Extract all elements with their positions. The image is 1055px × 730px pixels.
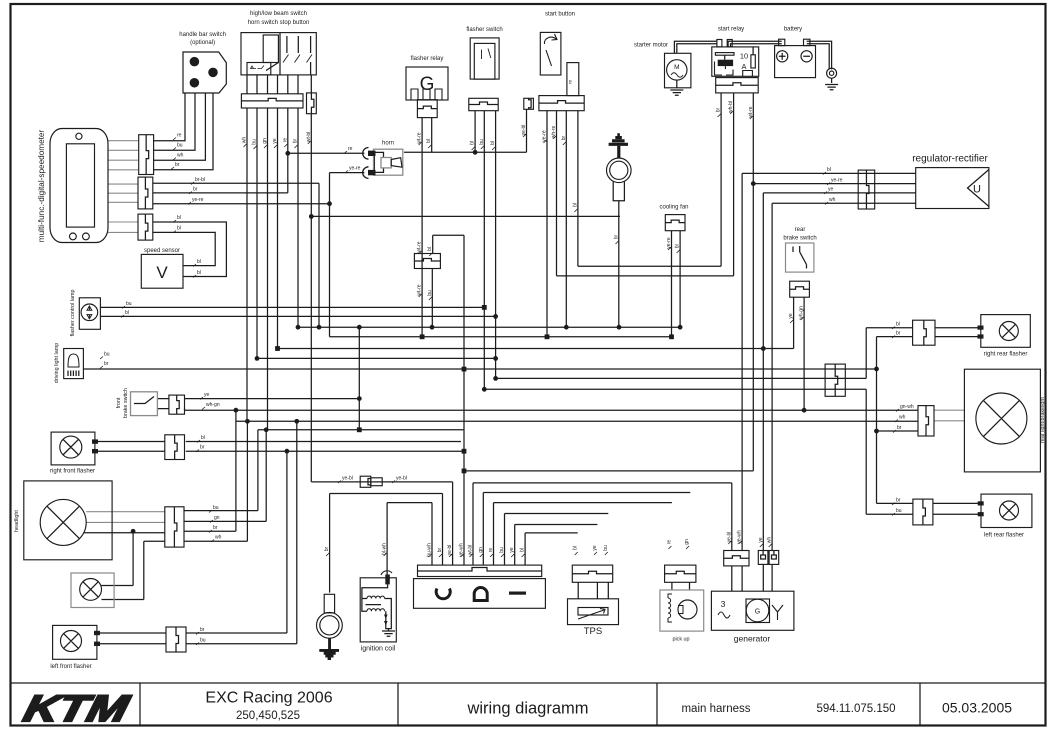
svg-text:bu: bu: [126, 301, 132, 307]
svg-text:main harness: main harness: [681, 703, 750, 715]
svg-text:10: 10: [740, 52, 748, 61]
svg-text:flasher relay: flasher relay: [411, 56, 444, 62]
svg-text:left front flasher: left front flasher: [50, 664, 91, 670]
svg-text:wt-bl: wt-bl: [468, 545, 474, 556]
svg-text:br: br: [675, 243, 681, 248]
svg-text:re: re: [348, 146, 353, 152]
svg-text:wt-re: wt-re: [417, 132, 423, 143]
svg-text:bl: bl: [125, 310, 129, 316]
svg-text:ye: ye: [272, 138, 278, 144]
svg-text:gn: gn: [684, 539, 690, 545]
svg-text:high/low beam switch: high/low beam switch: [250, 11, 307, 17]
svg-text:G: G: [755, 609, 760, 616]
svg-text:br-bl: br-bl: [195, 177, 205, 183]
svg-text:re: re: [282, 138, 288, 143]
svg-text:handle bar switch: handle bar switch: [179, 32, 226, 38]
svg-text:br: br: [614, 234, 620, 239]
svg-text:wh: wh: [899, 415, 906, 421]
svg-text:pick up: pick up: [672, 637, 689, 643]
svg-text:wt-re: wt-re: [417, 241, 423, 252]
svg-text:br: br: [561, 135, 567, 140]
svg-text:bl: bl: [177, 226, 181, 232]
svg-text:bl: bl: [572, 203, 578, 207]
svg-text:05.03.2005: 05.03.2005: [942, 700, 1012, 716]
svg-text:ye-wh: ye-wh: [459, 543, 465, 557]
svg-text:ye-bl: ye-bl: [726, 532, 732, 543]
svg-text:bu: bu: [499, 547, 505, 553]
svg-text:bl: bl: [197, 259, 201, 265]
svg-text:ye-re: ye-re: [192, 197, 204, 203]
svg-text:start button: start button: [545, 12, 575, 18]
svg-text:br: br: [175, 162, 180, 168]
svg-text:wh-gn: wh-gn: [799, 306, 805, 320]
svg-text:ye-bl: ye-bl: [521, 125, 527, 136]
svg-text:horn: horn: [382, 141, 394, 147]
svg-text:wh: wh: [767, 537, 773, 544]
svg-text:wh: wh: [242, 137, 248, 144]
svg-text:bl: bl: [427, 247, 433, 251]
svg-text:br: br: [437, 547, 443, 552]
svg-text:bu: bu: [200, 638, 206, 644]
svg-text:bl: bl: [201, 435, 205, 441]
svg-text:headlight: headlight: [14, 510, 20, 532]
svg-text:bl: bl: [197, 270, 201, 276]
svg-text:wh-re: wh-re: [551, 126, 557, 139]
svg-text:ye-re: ye-re: [831, 178, 843, 184]
svg-text:generator: generator: [734, 634, 771, 644]
svg-text:ye-re: ye-re: [666, 237, 672, 249]
svg-text:br: br: [293, 138, 299, 143]
svg-text:ye: ye: [788, 313, 794, 319]
svg-text:wh-bl: wh-bl: [728, 101, 734, 113]
svg-text:multi-func.-digital-speedomete: multi-func.-digital-speedometer: [37, 130, 46, 243]
svg-text:ye: ye: [758, 537, 764, 543]
svg-text:br: br: [200, 627, 205, 633]
svg-text:bl: bl: [573, 546, 579, 550]
svg-text:br: br: [896, 331, 901, 337]
svg-text:EXC Racing 2006: EXC Racing 2006: [205, 690, 332, 707]
svg-text:gn-wh: gn-wh: [900, 404, 914, 410]
svg-text:bu: bu: [427, 290, 433, 296]
svg-text:wt-re: wt-re: [417, 284, 423, 295]
svg-text:bu: bu: [104, 352, 110, 358]
svg-text:rear light/brakelight: rear light/brakelight: [1040, 397, 1046, 443]
svg-text:brake switch: brake switch: [123, 388, 129, 418]
svg-text:ye: ye: [592, 545, 598, 551]
svg-text:front: front: [116, 397, 122, 408]
svg-text:wiring diagramm: wiring diagramm: [466, 700, 588, 718]
svg-text:gn: gn: [478, 547, 484, 553]
svg-text:ye-re: ye-re: [349, 166, 361, 172]
svg-text:bl: bl: [426, 139, 432, 143]
svg-text:re: re: [177, 133, 182, 139]
svg-text:bl: bl: [470, 141, 476, 145]
svg-text:wh: wh: [829, 197, 836, 203]
svg-text:bl: bl: [177, 215, 181, 221]
svg-text:starter motor: starter motor: [634, 43, 668, 49]
svg-text:cooling fan: cooling fan: [659, 205, 688, 211]
svg-text:ye: ye: [828, 187, 834, 193]
svg-text:flasher switch: flasher switch: [466, 27, 502, 33]
svg-text:594.11.075.150: 594.11.075.150: [816, 703, 895, 715]
svg-text:br: br: [897, 425, 902, 431]
svg-text:wt-bl: wt-bl: [306, 132, 312, 143]
svg-text:bu: bu: [177, 143, 183, 149]
svg-text:flasher control lamp: flasher control lamp: [70, 289, 76, 336]
svg-text:br: br: [213, 525, 218, 531]
svg-text:ye-bl: ye-bl: [396, 476, 407, 482]
svg-text:wh-gn: wh-gn: [206, 402, 220, 408]
svg-text:ignition coil: ignition coil: [361, 646, 396, 653]
svg-text:driving light lamp: driving light lamp: [54, 343, 60, 383]
svg-text:bu: bu: [252, 139, 258, 145]
svg-text:TPS: TPS: [584, 626, 602, 637]
svg-text:bu: bu: [603, 545, 609, 551]
svg-text:br: br: [200, 445, 205, 451]
svg-text:ye-bl: ye-bl: [447, 545, 453, 556]
svg-text:KTM: KTM: [20, 688, 134, 729]
svg-text:bl: bl: [520, 548, 526, 552]
svg-text:regulator-rectifier: regulator-rectifier: [912, 154, 988, 165]
svg-text:horn switch stop button: horn switch stop button: [248, 20, 310, 26]
svg-text:br: br: [716, 107, 722, 112]
svg-text:bl: bl: [490, 141, 496, 145]
svg-text:wt-re: wt-re: [748, 106, 754, 117]
svg-text:M: M: [674, 64, 679, 71]
svg-text:rear: rear: [795, 227, 806, 233]
svg-text:re: re: [666, 540, 672, 545]
svg-text:bu: bu: [479, 139, 485, 145]
svg-text:bl: bl: [896, 322, 900, 328]
svg-text:bu-wh: bu-wh: [427, 543, 433, 557]
svg-text:U: U: [973, 184, 981, 196]
svg-text:250,450,525: 250,450,525: [236, 710, 300, 722]
svg-text:left rear flasher: left rear flasher: [984, 533, 1024, 539]
svg-text:3: 3: [721, 599, 726, 609]
svg-text:gn: gn: [214, 515, 220, 521]
svg-text:A: A: [741, 62, 746, 71]
svg-text:br: br: [896, 498, 901, 504]
svg-text:ye-bl: ye-bl: [342, 476, 353, 482]
svg-text:ye-wh: ye-wh: [737, 530, 743, 544]
svg-text:bu: bu: [213, 505, 219, 511]
svg-text:br: br: [324, 546, 330, 551]
svg-text:wh: wh: [215, 535, 222, 541]
svg-text:brake switch: brake switch: [783, 236, 816, 242]
svg-text:bl: bl: [827, 167, 831, 173]
svg-text:ye-re: ye-re: [542, 130, 548, 142]
svg-text:re: re: [488, 548, 494, 553]
svg-text:br: br: [104, 361, 109, 367]
svg-text:(optional): (optional): [190, 40, 215, 46]
svg-text:right rear flasher: right rear flasher: [984, 352, 1028, 358]
svg-text:wh: wh: [177, 153, 184, 159]
svg-text:bl-wh: bl-wh: [382, 543, 388, 555]
svg-text:battery: battery: [784, 27, 802, 33]
svg-text:ye: ye: [509, 547, 515, 553]
svg-text:ye: ye: [204, 392, 210, 398]
svg-text:re: re: [568, 80, 573, 85]
svg-text:V: V: [156, 263, 168, 282]
svg-text:right front flasher: right front flasher: [50, 469, 95, 475]
svg-text:bu: bu: [896, 508, 902, 514]
svg-text:G: G: [420, 74, 435, 95]
svg-text:gn: gn: [262, 138, 268, 144]
svg-text:br: br: [193, 187, 198, 193]
svg-text:start relay: start relay: [718, 27, 744, 33]
svg-text:speed sensor: speed sensor: [144, 248, 180, 254]
